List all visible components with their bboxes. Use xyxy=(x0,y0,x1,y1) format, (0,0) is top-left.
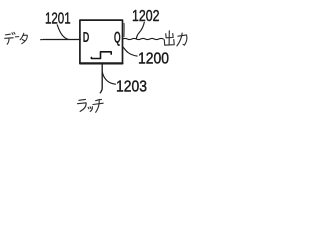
svg-text:Q: Q xyxy=(114,29,121,46)
annotation "出力" (output) xyxy=(164,31,187,46)
svg-text:1201: 1201 xyxy=(45,9,71,27)
latch box 1200 xyxy=(80,20,123,63)
annotation "ラッチ" (latch) xyxy=(78,99,104,112)
leader line to 1200 xyxy=(123,46,138,56)
svg-text:1202: 1202 xyxy=(132,7,160,25)
data input wire xyxy=(41,39,80,41)
svg-text:1203: 1203 xyxy=(116,78,147,96)
enable step symbol xyxy=(91,52,111,59)
svg-text:D: D xyxy=(83,29,90,46)
latch box right-edge retrace stroke xyxy=(123,23,125,36)
svg-text:1200: 1200 xyxy=(138,50,169,68)
leader line to 1203 xyxy=(102,72,115,84)
leader line to 1202 xyxy=(136,22,144,38)
latch enable wire (clock input) xyxy=(100,64,102,93)
leader line to 1201 xyxy=(57,25,68,39)
annotation "データ" (data) xyxy=(5,32,28,44)
output pin wire xyxy=(123,38,164,39)
